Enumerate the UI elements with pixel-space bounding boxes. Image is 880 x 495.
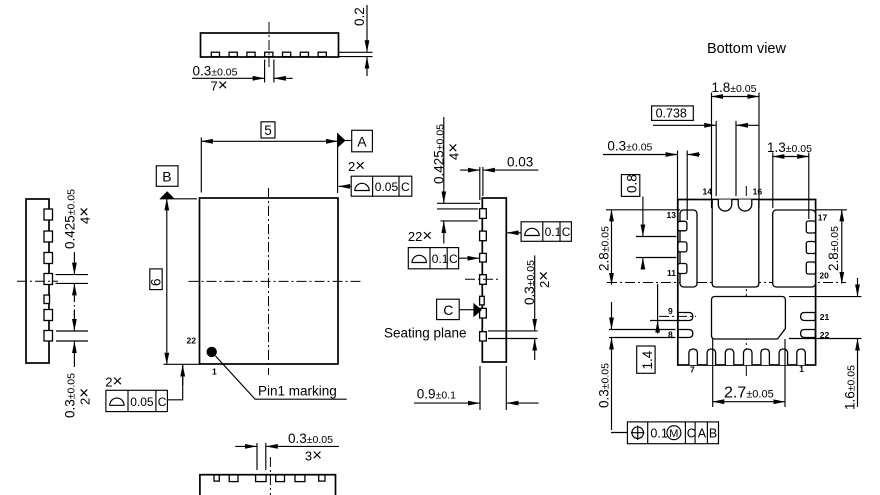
profile frame 0.1 C (section right) [507,222,571,242]
svg-text:0.2: 0.2 [352,7,367,26]
svg-text:Seating plane: Seating plane [384,326,467,341]
dimension 0.3±0.05 7x [192,60,293,95]
svg-text:0.1: 0.1 [545,225,562,239]
pin1 marking dot [207,347,217,357]
profile frame 0.05 C (bottom left) [106,365,183,412]
svg-text:2×: 2× [75,388,94,405]
svg-text:C: C [443,302,453,318]
svg-text:9: 9 [668,306,673,316]
left side view centerline [17,280,58,282]
main top view body [200,198,339,364]
dimension 0.3±0.05 bottom-left and left leader lines [597,302,676,430]
svg-text:C: C [401,180,410,194]
svg-text:1.4: 1.4 [640,350,655,369]
svg-text:0.3±0.05: 0.3±0.05 [522,260,537,305]
pin number labels bottom view [667,187,830,375]
svg-text:0.3±0.05: 0.3±0.05 [597,363,612,408]
dimension 1.8±0.05 [712,80,760,208]
svg-text:0.05: 0.05 [375,180,399,194]
svg-text:5: 5 [264,123,272,138]
pin 16 slot [738,200,752,212]
svg-text:1.3±0.05: 1.3±0.05 [767,140,812,155]
svg-text:4×: 4× [444,143,463,160]
svg-text:0.1: 0.1 [650,426,667,440]
svg-text:Pin1 marking: Pin1 marking [258,384,337,399]
bottom view body [678,200,816,366]
pin 22 [801,330,816,338]
top side view body [201,33,339,57]
svg-text:1.8±0.05: 1.8±0.05 [712,80,757,95]
dimension 0.9±0.1 [414,366,539,410]
section view body [482,198,506,362]
pin 14 slot [718,200,732,212]
pad top-right [773,210,816,287]
svg-text:0.425±0.05: 0.425±0.05 [432,124,447,184]
svg-text:A: A [698,426,707,440]
pin 21 [801,313,816,321]
dimension 0.03 [460,155,538,201]
pad top-center [712,200,759,288]
dimension 6 [149,199,200,364]
svg-text:4×: 4× [75,207,94,224]
bottom side view centerline [269,457,271,495]
svg-text:13: 13 [667,210,677,220]
dimension 0.3±0.05 2x (section) [488,255,553,360]
svg-text:0.8: 0.8 [625,174,640,193]
svg-text:0.9±0.1: 0.9±0.1 [417,387,456,402]
svg-text:0.3±0.05: 0.3±0.05 [607,139,652,154]
svg-text:1: 1 [212,367,217,377]
svg-text:2×: 2× [105,372,122,391]
dimension 2.8±0.05 left [597,210,681,285]
svg-text:6: 6 [149,278,164,286]
pin1 marking leader and text [216,356,347,399]
left side view leads [44,209,53,341]
svg-text:0.3±0.05: 0.3±0.05 [288,431,333,446]
dimension 0.2 [339,5,373,76]
svg-text:1: 1 [799,364,804,374]
pad top-left [680,210,697,287]
bottom side view body [200,475,336,495]
bottom slots pins 1-7 [689,349,805,365]
svg-text:2.8±0.05: 2.8±0.05 [597,226,612,271]
svg-text:A: A [357,134,367,150]
dimension 2.7±0.05 [713,339,785,407]
svg-text:1.6±0.05: 1.6±0.05 [843,365,858,410]
svg-text:0.738: 0.738 [656,107,687,121]
svg-text:17: 17 [818,213,828,223]
svg-text:0.3±0.05: 0.3±0.05 [193,64,238,79]
dimension 0.425±0.05 4x (section) [432,117,481,244]
svg-text:14: 14 [703,187,713,197]
profile frame 0.1 C (section left) [408,248,479,269]
svg-text:0.1: 0.1 [432,252,449,266]
main top view horizontal centerline [189,280,362,282]
svg-text:11: 11 [667,268,676,278]
pin 8 [678,330,693,338]
dimension 1.6±0.05 [789,278,862,410]
top side view leads [211,52,326,56]
dimension 0.8 basic [621,174,676,268]
svg-text:22: 22 [187,336,197,346]
profile frame 0.05 C (right) [339,176,412,196]
pad top-right fused leads 18 19 [806,221,815,274]
dimension 0.3±0.05 2x (left view) [56,310,94,418]
bottom view vertical centerline [745,186,747,378]
svg-text:C: C [562,225,571,239]
bottom view horizontal centerline [607,282,846,284]
svg-text:20: 20 [819,271,829,281]
section view leads [480,209,487,341]
left side view body [26,199,49,363]
datum A [338,130,373,152]
svg-text:0.425±0.05: 0.425±0.05 [63,189,78,249]
datum B [156,166,197,199]
svg-text:2.8±0.05: 2.8±0.05 [826,226,841,271]
svg-text:C: C [158,395,167,409]
svg-text:C: C [449,252,458,266]
pin 9 centerline [659,315,696,317]
pin 9 [678,313,693,321]
datum C [437,299,482,319]
svg-text:2×: 2× [348,156,365,175]
svg-text:21: 21 [820,312,830,322]
svg-text:3×: 3× [305,446,322,465]
dimension 0.3±0.05 3x [235,431,339,470]
svg-text:Bottom view: Bottom view [707,41,786,57]
svg-text:2×: 2× [534,271,553,288]
svg-text:7×: 7× [211,76,228,95]
svg-text:B: B [709,426,717,440]
section view centerline [465,278,500,280]
svg-text:0.03: 0.03 [507,155,533,170]
top side view centerline [268,22,270,67]
dimension 2.8±0.05 right [816,210,847,284]
dimension 1.4 basic [637,284,680,373]
pad top-left fused leads 12 13 [678,221,687,273]
svg-text:7: 7 [690,365,695,375]
main top view vertical centerline [268,188,270,375]
svg-text:0.05: 0.05 [130,395,154,409]
dimension 1.3±0.05 [767,140,812,219]
dimension 5 [201,122,337,193]
dimension 0.738 basic [652,106,759,196]
svg-text:C: C [687,426,696,440]
svg-text:B: B [162,169,171,185]
bottom side view leads [214,475,325,482]
svg-text:M: M [669,428,678,440]
svg-text:22×: 22× [408,226,432,245]
position frame 0.1 M C A B [611,422,719,444]
center pad [712,297,786,340]
dimension 0.3±0.05 top-left [603,139,700,221]
svg-text:16: 16 [753,187,763,197]
dimension 0.425±0.05 4x (left view) [56,189,94,330]
